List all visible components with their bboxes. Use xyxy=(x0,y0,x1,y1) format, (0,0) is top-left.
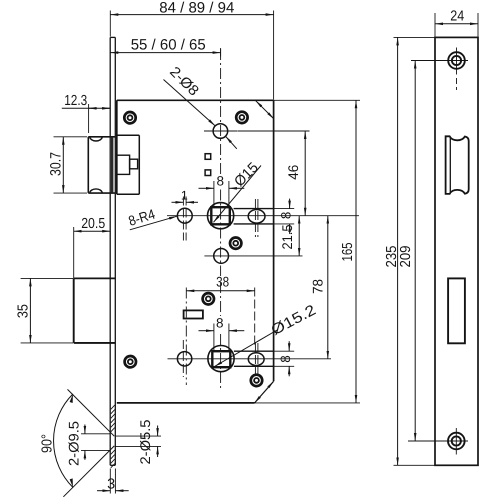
dimension 78 right side xyxy=(310,216,328,359)
svg-text:21.5: 21.5 xyxy=(279,224,295,249)
hole 2-O8 second xyxy=(214,249,229,264)
screw boss bottom-right xyxy=(251,375,262,386)
faceplate front view outline xyxy=(435,37,478,465)
centerline pair left hole upper xyxy=(183,197,186,241)
svg-text:90°: 90° xyxy=(40,434,56,453)
horizontal centerline upper row xyxy=(167,215,359,217)
dimension 55/60/65 backset xyxy=(110,36,220,56)
hole 2-O8 top xyxy=(213,124,228,139)
svg-text:2-Ø5.5: 2-Ø5.5 xyxy=(137,419,153,464)
right slot hole lower xyxy=(248,353,264,366)
label 8-R4 with leader xyxy=(126,206,177,230)
dimension 12.3 latch projection xyxy=(62,93,110,133)
svg-text:20.5: 20.5 xyxy=(81,216,105,232)
slot channel upper xyxy=(234,209,274,224)
svg-text:165: 165 xyxy=(340,243,356,262)
screw boss middle xyxy=(230,238,241,249)
svg-text:8: 8 xyxy=(217,173,225,188)
label O15.2 with leader to cylinder square xyxy=(215,301,319,366)
dimension 1 centerline offset xyxy=(172,188,199,202)
dimension 209 screw spacing xyxy=(398,61,448,442)
horizontal centerline second hole xyxy=(204,255,302,257)
centerline pair left hole lower xyxy=(183,288,186,386)
screw boss top-right xyxy=(236,112,247,123)
svg-text:8: 8 xyxy=(216,315,224,330)
faceplate side view strip xyxy=(110,37,115,465)
right slot hole upper xyxy=(248,210,265,224)
small rectangle detail near lower-left hole xyxy=(184,310,203,318)
deadbolt side view xyxy=(74,278,116,343)
spindle follower O15 with 8mm square xyxy=(208,203,234,229)
left hole lower xyxy=(177,352,191,366)
chamfer edge with double arrow bottom-right xyxy=(255,381,274,403)
dimension 38 hole spacing xyxy=(186,273,254,291)
svg-text:24: 24 xyxy=(450,8,464,24)
slot channel lower xyxy=(234,351,274,366)
small square detail upper xyxy=(205,154,211,160)
label O15 with leader to spindle square xyxy=(214,160,262,223)
faceplate top screw hole xyxy=(445,48,468,91)
latch bolt side view xyxy=(88,137,115,193)
dimension 30.7 latch height xyxy=(48,137,88,193)
corner double arrow annotation top-right xyxy=(256,101,274,119)
horizontal centerline top hole xyxy=(204,130,238,132)
dimension 35 deadbolt height xyxy=(16,278,73,343)
dimension 8 slot lower right xyxy=(274,341,295,376)
svg-text:38: 38 xyxy=(216,273,229,289)
faceplate deadbolt opening xyxy=(448,278,465,343)
countersink 90 degree callout xyxy=(40,389,115,496)
horizontal centerline lower row xyxy=(168,358,332,360)
centerline pair right hole upper xyxy=(255,199,258,237)
dimension 2-O9.5 countersink xyxy=(65,421,110,466)
dimension 8 slot upper right xyxy=(274,199,295,234)
dimension 8 cylinder square lower xyxy=(199,315,245,350)
faceplate section hatching xyxy=(111,405,115,468)
svg-text:84 / 89 / 94: 84 / 89 / 94 xyxy=(159,0,234,16)
latch tail notch rectangles xyxy=(117,155,130,174)
svg-text:2-Ø9.5: 2-Ø9.5 xyxy=(65,421,81,466)
svg-text:8: 8 xyxy=(279,212,294,220)
svg-text:1: 1 xyxy=(181,188,188,202)
svg-text:12.3: 12.3 xyxy=(64,93,87,109)
centerline pair right hole lower xyxy=(255,343,258,376)
dimension 2-O5.5 screw hole xyxy=(116,419,162,464)
extension centerline right hole to 38 dim xyxy=(254,288,256,346)
dimension 8 spindle square upper xyxy=(199,173,245,206)
lock case outline xyxy=(117,100,274,403)
svg-text:3: 3 xyxy=(107,477,115,493)
dimension 24 faceplate width xyxy=(435,8,478,36)
screw boss top-left xyxy=(124,112,135,123)
screw boss bottom-left xyxy=(125,356,136,367)
svg-text:78: 78 xyxy=(310,279,326,294)
small square detail lower xyxy=(205,170,211,176)
screw boss mid-left xyxy=(203,293,214,304)
dimension 20.5 deadbolt throw xyxy=(74,216,111,279)
dimension 46 right side xyxy=(238,131,310,216)
vertical centerline hole column xyxy=(220,49,222,390)
cylinder hole O15.2 with 8mm square xyxy=(208,346,234,372)
svg-text:55 / 60 / 65: 55 / 60 / 65 xyxy=(131,36,206,53)
dimension 84/89/94 overall depth xyxy=(110,0,273,99)
dimension 21.5 right side xyxy=(279,216,299,256)
svg-text:35: 35 xyxy=(16,304,32,318)
dimension 165 case height xyxy=(255,100,360,403)
svg-text:8: 8 xyxy=(278,355,293,363)
left hole upper 8-R4 xyxy=(177,208,192,223)
dimension 3 faceplate thickness xyxy=(97,469,129,494)
label 2-O8 with diameter leader xyxy=(164,64,237,149)
svg-text:209: 209 xyxy=(398,246,414,268)
faceplate bottom screw hole xyxy=(445,428,468,455)
svg-text:30.7: 30.7 xyxy=(48,152,65,176)
faceplate latch opening xyxy=(446,136,469,194)
latch housing inside case xyxy=(117,135,140,194)
svg-text:46: 46 xyxy=(285,164,301,179)
dimension 235 faceplate height xyxy=(384,37,434,465)
